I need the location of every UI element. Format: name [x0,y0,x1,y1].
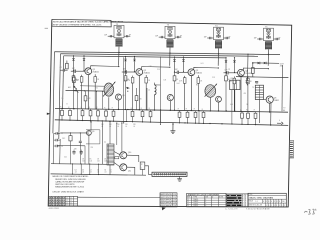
svg-text:1: 1 [274,205,275,207]
transistor Q4 circle [238,69,245,76]
svg-text:4: 4 [271,201,272,203]
extra verticals detector band [76,91,78,109]
svg-text:5P: 5P [129,35,131,37]
transistor Q6 circle [167,95,173,101]
wire lower section to connector [145,166,152,175]
trimmer capacitor circle inside T3 [169,30,172,33]
junction dots on rail B [61,108,62,109]
svg-text:2.2: 2.2 [66,200,68,202]
svg-text:1: 1 [269,205,270,207]
transistor Q2 internal leads [137,70,139,73]
svg-text:4: 4 [263,201,264,203]
svg-text:2.2: 2.2 [70,203,72,205]
wire supply rail A2 (AGC line) [61,54,259,57]
svg-text:Q1: Q1 [187,199,189,201]
svg-text:33K: 33K [74,149,77,151]
svg-text:2SA101: 2SA101 [93,71,99,74]
svg-text:0.02: 0.02 [125,80,128,82]
svg-text:Q11: Q11 [128,171,131,173]
resistor R row x70 [69,109,71,111]
svg-text:MEASUREMENTS REF. S-7052: MEASUREMENTS REF. S-7052 [55,186,85,189]
svg-text:DWG NO 4-312-178: DWG NO 4-312-178 [249,205,263,207]
resistor R row x256 [255,111,257,113]
wire supply rail A1 (B+ line) [55,52,281,55]
wire emitter of Q3 to rail B [190,76,192,111]
resistor R left vertical [66,63,69,69]
wire stub det 2 [136,88,138,93]
svg-text:T4: T4 [215,26,217,28]
svg-text:104: 104 [82,161,85,163]
wire L1 to rail B [154,97,156,111]
svg-text:10P: 10P [254,37,257,39]
resistor R right vertical [252,68,255,74]
trimmer capacitor circle inside T2 [118,30,121,33]
svg-text:T6: T6 [256,83,258,85]
trimmer box inside T2 [117,26,121,29]
svg-text:1: 1 [266,205,267,207]
capacitor column left 2 [54,139,56,141]
svg-text:C4: C4 [110,170,112,172]
parts list left table [160,193,177,207]
svg-text:C18: C18 [212,77,215,79]
svg-text:USE: USE [205,197,208,199]
wire x102 vertical [101,122,103,165]
svg-text:4: 4 [243,203,244,205]
drawing border frame [48,21,292,207]
IF transformer T5 can outline [264,28,274,40]
svg-text:C12: C12 [125,78,128,80]
svg-text:T7: T7 [104,142,106,144]
svg-text:8.8: 8.8 [62,205,65,207]
diode D output 2 [264,62,266,65]
capacitors on row y152 [72,151,75,153]
wire vertical x271 to rail C [270,103,272,125]
svg-text:IN MF UNLESS OTHERWISE SPECIFI: IN MF UNLESS OTHERWISE SPECIFIED. TOL ±1… [53,24,101,26]
diode D at x74 [73,56,75,59]
svg-text:T3: T3 [167,25,169,27]
junction dots on rail C [184,122,185,123]
arrow marker left border [47,113,51,115]
variable capacitor CV1 (hatched) [103,81,116,96]
capacitor at base of Q3 [176,71,178,74]
resistor R row x142 [142,110,144,112]
trimmer capacitor circle inside T5 [267,32,270,35]
svg-text:MICROPHON: MICROPHON [160,197,172,199]
svg-text:22K: 22K [133,124,136,126]
wire T6 down to rail C [258,100,260,124]
capacitor at base of Q1 [73,70,75,73]
diode D at x234 [234,58,236,61]
svg-text:0.04: 0.04 [177,83,180,85]
svg-text:Q1: Q1 [187,206,189,208]
revision stamp strip on right border [289,141,293,159]
svg-text:0.04: 0.04 [230,104,233,106]
svg-text:8.8: 8.8 [49,205,52,207]
wire bottom strip line [78,196,161,198]
wire T7 to Q10 base [114,152,120,155]
resistor R row x188 [187,110,189,112]
wire base of Q1 [76,70,85,72]
transistor Q10 circle [120,152,127,159]
svg-text:C4: C4 [97,170,99,172]
wire vertical x282 down [281,66,283,112]
svg-text:C1: C1 [60,67,62,69]
wire base of Q3 [179,71,188,73]
wire verticals rail B to C [76,109,78,121]
transistor Q2 circle [136,69,143,76]
side wire left of T4 [207,37,213,39]
wire blob1 top link [80,85,104,87]
IF transformer T4 can outline [214,27,224,39]
trimmer box inside T4 [216,28,220,31]
svg-text:4: 4 [274,201,275,203]
svg-text:.04: .04 [75,172,77,174]
svg-text:C4: C4 [75,170,77,172]
svg-text:4: 4 [243,195,244,197]
svg-text:C+ 7-3 12-1 78: C+ 7-3 12-1 78 [225,209,237,211]
wire rail C (lower bus) [55,120,288,126]
svg-text:VALUE OF COMPONENTS INDICATED:: VALUE OF COMPONENTS INDICATED: [52,175,89,178]
svg-text:4: 4 [243,198,244,200]
wire left column vertical a [52,133,55,164]
svg-text:R21: R21 [196,85,199,87]
resistor R emitter of Q2 [145,77,148,83]
ceramic filter CF1 box [230,80,240,89]
svg-text:NOTE: ALL RESISTANCE VALUES IN: NOTE: ALL RESISTANCE VALUES IN OHMS. K=1… [53,21,124,24]
wire supply rail A3 (return line) [64,56,226,58]
resistor R det 2 [136,93,138,96]
svg-text:VOL: VOL [95,88,98,90]
tuning capacitor of T4 [218,34,220,36]
resistor R divider at x74 [73,71,75,76]
wire stub y152 to D1 [84,146,86,164]
resistor R bias of Q4 [233,78,236,84]
svg-text:B: B [67,104,68,106]
svg-text:1: 1 [276,205,277,207]
svg-text:CAPACITORS ARE SHOWN MF: CAPACITORS ARE SHOWN MF [55,180,85,183]
svg-text:L1: L1 [148,89,150,91]
trimmer capacitor circle inside T4 [217,31,220,34]
svg-text:.04: .04 [117,126,119,128]
tuning capacitor of T5 [268,35,270,37]
resistor R row x150 [150,110,152,112]
svg-text:.04: .04 [97,172,99,174]
resistor R bias of Q1 [80,77,83,83]
resistor R row x90 [90,109,92,111]
svg-text:2SB32: 2SB32 [274,100,279,102]
svg-text:CIRCUIT USED IN BLOCK CHAR: CIRCUIT USED IN BLOCK CHART [52,190,84,193]
svg-text:22K: 22K [125,124,128,126]
svg-text:MICROPHON: MICROPHON [160,203,172,205]
resistor R divider at x226 [225,73,227,76]
side wire right of T4 [224,37,230,39]
wire vertical x116.8 [116,123,118,145]
shield box around Q9 [86,130,100,144]
capacitor C right 1 [246,80,249,82]
svg-text:10P: 10P [123,69,126,71]
transistor Q3 circle [188,69,195,76]
handwritten sheet number [304,209,316,214]
variable capacitor CV2 (hatched) [205,85,216,98]
svg-text:5P: 5P [61,146,63,148]
resistor R row x196 [195,111,197,113]
wire T3 coil down through rail [169,48,171,66]
transistor Q3 internal leads [189,71,191,74]
svg-text:5P: 5P [228,36,230,38]
diode D at x134 [134,57,136,60]
wire collector x241 to coil [243,68,268,70]
wire CV2 to rail B [209,97,211,111]
resistor R row x98 [97,109,99,111]
svg-text:4: 4 [279,120,280,122]
svg-text:104: 104 [90,161,93,163]
trimmer box inside T5 [266,29,270,32]
capacitor column left 3 [54,145,56,147]
wire T7 to Q11 base [114,163,120,167]
resistor R divider at x126 [125,72,127,76]
resistor R bias of Q2 [131,77,134,83]
wire Q10 top to rail C vertical [121,123,123,152]
wire TP down to D2 [142,169,144,175]
wire emitter of Q1 to rail B [87,75,89,109]
svg-text:NOTE: NOTE [219,197,223,199]
resistor R osc [69,136,72,141]
resistor R row x106 [105,109,107,111]
resistor R row x248 [247,111,249,113]
inductor L1 loops [155,85,157,97]
svg-text:Q1: Q1 [187,203,189,205]
connector strip CN1 [152,172,187,176]
svg-text:10: 10 [62,98,64,100]
title block [248,193,286,207]
svg-text:1: 1 [282,205,283,207]
resistor R row x132 [132,110,134,112]
resistor R emitter of Q1 [94,77,97,83]
wire T4 coil down through rail [217,48,219,65]
svg-text:IF: IF [205,206,206,208]
capacitor C right 2 [255,80,258,82]
wire long vertical x231.9 [231,90,233,125]
svg-text:1K: 1K [97,159,99,161]
wire left vertical feed 2 [59,54,61,139]
svg-text:2.2: 2.2 [70,200,72,202]
capacitor at base of Q4 [226,71,228,74]
svg-text:CF1: CF1 [230,78,233,80]
ground symbol on rail C [172,124,174,131]
side wire right of T5 [274,38,280,40]
voltage table [48,196,77,206]
svg-text:4-312-178-11: 4-312-178-11 [49,208,60,210]
svg-text:2SA102: 2SA102 [245,72,251,75]
winding (coil) of T2 [116,38,122,40]
svg-text:22K: 22K [117,124,120,126]
wire T7 top to rail C [109,122,111,144]
svg-text:TITLE: TITLE [249,194,253,196]
wire L1 top link [155,84,161,86]
capacitor C at far left [62,69,64,72]
wire T7 bottom [109,165,111,175]
svg-text:BASIC GRID DIAGRAM: BASIC GRID DIAGRAM [250,197,274,200]
transistor Q7 circle [216,96,222,102]
diode D at x84 [83,56,85,59]
side wire right of T2 [124,35,130,37]
svg-text:TYPE: TYPE [193,197,197,199]
svg-text:10P: 10P [155,36,158,38]
svg-text:Q9: Q9 [92,131,94,133]
svg-text:IF: IF [205,203,206,205]
transistor Q4 internal leads [239,71,241,74]
tapped coil ladder T6 [255,85,263,99]
svg-text:4: 4 [266,201,267,203]
svg-text:104: 104 [97,161,100,163]
svg-text:4: 4 [268,201,269,203]
svg-text:5P: 5P [180,36,182,38]
wire to right border y77 [236,77,288,78]
svg-text:4: 4 [243,200,244,202]
wire emitter of Q4 to rail B [240,76,242,111]
IF transformer T3 can outline [165,26,175,38]
diode D agc [126,87,129,90]
svg-text:1K: 1K [104,159,106,161]
lamp/transistor small circle at 118 [116,94,122,100]
svg-text:10P: 10P [104,35,107,37]
svg-text:1/6: 1/6 [282,201,284,203]
resistor R row x180 [179,110,181,112]
resistor R emitter of Q4 [247,78,250,84]
svg-text:1: 1 [279,205,280,207]
wire left vertical feed 1 [53,52,55,134]
svg-text:8.8: 8.8 [55,205,58,207]
svg-text:4: 4 [277,201,278,203]
svg-text:C4: C4 [104,170,106,172]
wire verticals between D1 and D2 [72,164,74,174]
svg-text:2.2: 2.2 [70,198,72,200]
revision block (dark) [227,194,248,207]
diode D at x174 [174,57,176,60]
arrow marker under bottom border [162,207,166,210]
resistor R row x62 [61,109,63,111]
svg-text:Q1: Q1 [187,201,189,203]
wire Q7 to rail B [218,102,220,111]
transistor Q9 circle [87,131,92,136]
capacitor column left 1 [54,132,56,134]
svg-text:10P: 10P [175,69,178,71]
diode D at x226 [225,58,227,61]
svg-text:C14: C14 [157,69,160,71]
wire Q9 collector up to rail C [90,122,92,131]
diode D at x126 [125,57,127,60]
svg-text:10P: 10P [72,68,75,70]
svg-text:10P: 10P [225,69,228,71]
svg-text:.04: .04 [125,126,127,128]
svg-text:.04: .04 [133,126,135,128]
svg-text:2SA102: 2SA102 [196,72,202,75]
svg-text:IF: IF [205,201,206,203]
wire long vertical x123.7 [123,57,125,123]
resistor R row x242 [241,111,243,113]
svg-text:2P: 2P [228,69,230,71]
svg-text:220: 220 [91,147,94,149]
transistor Q1 internal leads [86,70,88,73]
wire collector x88 to coil [91,66,119,69]
side wire left of T5 [257,38,263,40]
svg-text:1K: 1K [90,159,92,161]
svg-text:MICROPHON: MICROPHON [160,200,172,202]
test point box TP [140,162,145,169]
transistor Q8 circle [266,96,273,103]
trimmer box inside T3 [168,27,172,30]
resistor R emitter of Q3 [197,78,200,84]
winding (coil) of T5 [265,41,271,43]
svg-text:2SA101: 2SA101 [144,71,150,74]
svg-text:T5: T5 [265,27,267,29]
svg-text:455: 455 [280,66,283,68]
diode detector pair [74,86,77,89]
oscillator transformer T7 (hatched) [107,144,114,165]
wire rail D2 [51,174,146,175]
svg-text:1K: 1K [82,159,84,161]
svg-text:2.2: 2.2 [66,198,68,200]
resistor R bias of Q3 [183,78,186,84]
svg-text:5P: 5P [278,37,280,39]
wire T2 coil down through rail [118,47,120,66]
resistor R row x114 [113,109,115,111]
svg-text:Q10: Q10 [128,152,131,154]
wire detector bus y91 [66,89,105,92]
svg-text:2.2: 2.2 [70,205,72,207]
side wire left of T2 [108,35,114,37]
wire base of Q2 [127,71,136,73]
svg-text:10K: 10K [164,80,167,82]
resistor R6 [73,77,76,82]
side wire left of T3 [159,36,165,38]
resistor R row x204 [203,111,205,113]
svg-text:Y 4 3 1 2 1 7 8 0 1 6 P A G: Y 4 3 1 2 1 7 8 0 1 6 P A G E [246,208,270,211]
svg-text:8.8: 8.8 [52,205,55,207]
svg-text:4.7K: 4.7K [149,66,152,68]
wire Q11 collector right [127,167,135,175]
wire detector output line [252,62,279,65]
resistor R divider at x174 [174,72,176,76]
wire rail D1 [51,163,107,166]
svg-text:104: 104 [104,161,107,163]
wire Q8 emitter to rail B [269,103,271,112]
svg-text:455: 455 [244,93,247,95]
svg-text:1: 1 [284,205,285,207]
diode D output 1 [258,62,260,64]
svg-text:T2: T2 [116,24,118,26]
wire Q6 to rail B [169,101,171,111]
svg-text:.04: .04 [82,172,84,174]
wire Q10 collector right [127,155,139,162]
svg-text:22K: 22K [109,124,112,126]
svg-text:0.01: 0.01 [201,63,204,65]
svg-text:.04: .04 [110,172,112,174]
wire Q8 base to T6 [264,98,267,100]
svg-text:TP: TP [141,164,143,166]
wire long vertical x160.5 [160,57,162,125]
wire Q9 emitter down [88,135,90,164]
winding (coil) of T3 [167,39,173,41]
wire collector x139 to coil [142,67,170,70]
diode D at x184 [183,57,185,60]
wire rail B (upper ground bus) [55,108,288,112]
wire left column vertical b [59,139,62,164]
wire vertical feed x248 [247,54,250,80]
capacitor at base of Q2 [124,70,126,73]
svg-text:1:1: 1:1 [256,201,258,203]
complement chart table [187,193,226,207]
